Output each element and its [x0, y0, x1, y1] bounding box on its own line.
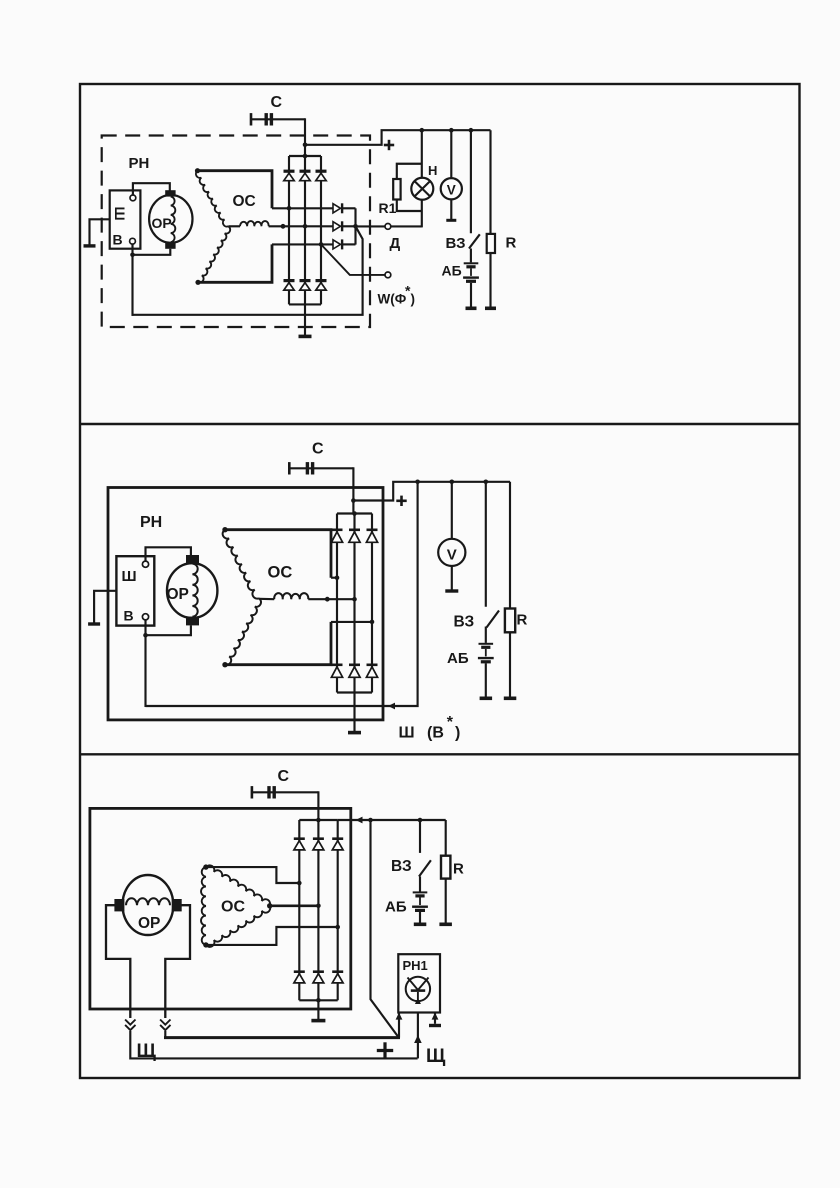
wire capacitor to main vertical: [251, 118, 305, 120]
lamp H circle: [411, 178, 433, 200]
wire switch3 upper: [419, 820, 421, 853]
ground wire regulator 2: [94, 591, 116, 623]
wire bridge3 minus to ground: [317, 1000, 319, 1019]
ground symbol left: [84, 244, 96, 247]
stator delta bottom node: [203, 942, 208, 947]
regulator PH1 box: [398, 954, 440, 1012]
wire PH1 left pin: [396, 1013, 403, 1020]
bridge top diode VD2: [300, 170, 311, 173]
bridge column 2: [304, 156, 306, 304]
wire battery to ground: [470, 283, 472, 307]
node switch branch: [469, 128, 474, 133]
svg-text:РН: РН: [129, 155, 150, 172]
stator middle coil horizontal: [240, 221, 269, 226]
bridge 2 column 1: [336, 514, 338, 693]
bridge top diode VD3: [316, 170, 327, 173]
arrow terminal Shch: [414, 1035, 422, 1043]
ground symbol bridge 2: [348, 731, 361, 735]
wire battery3 to ground: [419, 912, 421, 923]
wire excitation diode bus: [354, 208, 356, 244]
wire switch VZ upper: [470, 130, 472, 233]
bridge top bar: [289, 155, 321, 157]
ground symbol battery: [466, 307, 477, 311]
switch VZ2 blade: [487, 611, 500, 628]
wire phase2 to bridge 2: [308, 598, 354, 600]
wire + rail 3: [338, 819, 446, 821]
wire phase1 to bridge: [198, 171, 273, 209]
ground symbol resistor R 3: [439, 923, 452, 927]
bridge 2 column 3: [371, 514, 373, 693]
bridge2 bottom diode VD5: [349, 663, 360, 666]
svg-text:R: R: [517, 612, 528, 629]
rotor coil 3: [126, 898, 170, 905]
wire brush Shch to PH1: [130, 1031, 417, 1058]
wire Sh terminal to rotor brush: [133, 183, 170, 195]
svg-text:ВЗ: ВЗ: [446, 235, 466, 252]
voltmeter V2 circle: [438, 539, 465, 566]
svg-text:R: R: [506, 235, 517, 252]
svg-text:*: *: [447, 714, 454, 731]
wire brush plus to PH1: [164, 1031, 166, 1038]
voltmeter ground bar: [446, 219, 456, 222]
bridge 3 bottom bar: [299, 999, 337, 1001]
wire capacitor3 vertical: [317, 791, 319, 820]
terminal D circle: [385, 224, 391, 230]
switch VZ blade: [469, 234, 480, 248]
bridge column 3: [320, 156, 322, 304]
node phase3 3: [335, 925, 340, 930]
rotor brush contact bottom: [165, 242, 175, 249]
capacitor C3: [251, 786, 254, 798]
rotor brush contact bottom 2: [186, 617, 199, 626]
resistor R 2: [505, 609, 515, 633]
arrow Sh output: [388, 703, 395, 710]
bridge 2 top bar: [337, 512, 372, 514]
bridge 3 column 3: [337, 820, 339, 1000]
wire phase1 to bridge 3: [206, 867, 299, 883]
node phase3 on bridge column3: [319, 242, 324, 247]
node lamp branch: [420, 128, 425, 133]
battery AB: [464, 262, 479, 264]
node bridge3 top: [316, 818, 321, 823]
rotor brush contact top 2: [186, 555, 199, 564]
ground symbol resistor R 2: [504, 697, 517, 701]
terminal W circle: [385, 272, 391, 278]
svg-text:V: V: [447, 547, 457, 564]
bridge2 top diode VD1: [332, 528, 343, 531]
bridge 3 column 1: [298, 820, 300, 1000]
bridge 3 column 2: [317, 820, 319, 1000]
stator phase3 bottom node: [195, 280, 200, 285]
bridge bottom diode VD6: [316, 279, 327, 282]
svg-text:ВЗ: ВЗ: [454, 614, 475, 631]
node phase2 arrow 2: [325, 597, 330, 602]
svg-text:В: В: [113, 232, 123, 248]
node phase2 arrow: [281, 224, 286, 229]
ground symbol bridge: [299, 335, 312, 339]
wire resistor R vertical: [489, 130, 491, 234]
stator delta right node: [267, 903, 272, 908]
svg-text:ВЗ: ВЗ: [391, 858, 412, 875]
wire switch2 upper: [485, 482, 487, 607]
panel divider 1: [80, 423, 800, 425]
wire resistor R to ground: [489, 253, 491, 307]
wire phase2 to bridge: [269, 225, 333, 227]
wire phase1 to bridge 2: [225, 530, 331, 578]
regulator PH box: [110, 190, 141, 248]
svg-text:Д: Д: [390, 235, 401, 252]
node switch3 branch: [418, 818, 423, 823]
wire voltmeter bottom: [450, 199, 452, 219]
node switch2 branch: [484, 480, 489, 485]
wire voltmeter vertical: [450, 130, 452, 178]
svg-text:ОС: ОС: [268, 564, 293, 582]
rotor OP circle 3: [122, 875, 173, 935]
node V junction: [130, 253, 135, 258]
+ terminal label 2: [396, 499, 406, 502]
wire + output: [305, 130, 491, 145]
wire D output: [356, 225, 386, 227]
rotor mount right: [165, 905, 190, 1018]
rotor OP winding circle: [149, 195, 192, 243]
stator delta left winding: [201, 867, 206, 945]
svg-text:С: С: [278, 768, 290, 785]
svg-text:РН1: РН1: [403, 958, 428, 973]
resistor R: [487, 234, 495, 253]
node regulator feed: [368, 818, 373, 823]
node phase2 3: [316, 904, 321, 909]
node bridge1 top: [303, 154, 308, 159]
terminal V circle: [130, 238, 136, 244]
bridge bottom diode VD4: [284, 279, 295, 282]
alternator housing box 3: [90, 808, 351, 1009]
svg-text:ОР: ОР: [152, 215, 172, 231]
wire switch to battery: [470, 249, 472, 263]
wire phase3 to bridge 2: [225, 622, 331, 665]
wire resistor R3 to ground: [445, 879, 447, 924]
wire main vertical from capacitor to bridge: [304, 118, 306, 156]
bridge2 top diode VD3: [367, 528, 378, 531]
stator phase3 node 2: [222, 662, 227, 667]
svg-text:ОС: ОС: [233, 193, 256, 210]
rotor brush block left: [114, 899, 124, 911]
battery AB 3: [413, 891, 428, 893]
svg-text:АБ: АБ: [442, 263, 462, 279]
bridge3 top diode VD2: [313, 837, 324, 840]
rotor mount left: [106, 905, 130, 1018]
wire V to bottom 2: [144, 635, 146, 707]
wire + output 2: [353, 482, 510, 501]
wire Sh to rotor 2: [146, 547, 191, 561]
bridge3 top diode VD1: [294, 837, 305, 840]
wire switch3 to battery: [419, 877, 421, 892]
svg-text:Щ: Щ: [137, 1041, 157, 1062]
node phase1 2: [335, 575, 340, 580]
ground symbol battery 2: [480, 697, 493, 701]
wire V terminal to rotor bottom 2: [146, 620, 191, 635]
stator delta bottom winding: [206, 906, 270, 947]
brush left arrows: [125, 1020, 135, 1025]
wire V terminal to rotor bottom: [133, 244, 171, 255]
alternator housing box 2: [108, 488, 383, 720]
stator upper arm 2: [223, 530, 259, 599]
bridge3 bottom diode VD5: [313, 970, 324, 973]
ground symbol resistor R: [485, 307, 496, 311]
node phase1 on bridge column1: [287, 206, 292, 211]
stator upper coil arm: [196, 171, 228, 227]
stator phase1 node 2: [222, 527, 227, 532]
node phase2 2: [352, 597, 357, 602]
svg-text:РН: РН: [140, 514, 162, 531]
resistor R 3: [441, 856, 450, 879]
wire V down to bottom return: [131, 255, 133, 316]
wire PH1 right pin: [432, 1013, 439, 1020]
bridge 2 bottom bar: [337, 691, 372, 693]
capacitor C2: [288, 462, 291, 474]
wire battery2 to ground: [485, 663, 487, 697]
node excitation bus: [353, 224, 358, 229]
bridge3 bottom diode VD4: [294, 970, 305, 973]
node phase3 2: [370, 620, 375, 625]
wire resistor R2 to ground: [509, 632, 511, 697]
voltmeter2 ground bar: [445, 589, 458, 592]
bridge2 bottom diode VD4: [332, 663, 343, 666]
resistor R1 bypass top wire: [397, 164, 422, 180]
page frame outer border: [80, 84, 800, 1078]
svg-text:ОР: ОР: [138, 915, 160, 932]
transistor circle: [406, 977, 430, 1001]
bridge bottom diode VD5: [300, 279, 311, 282]
stator middle coil 2: [274, 593, 308, 599]
svg-text:): ): [411, 292, 416, 307]
transistor internals: [408, 978, 419, 991]
capacitor C: [250, 113, 253, 125]
svg-text:АБ: АБ: [447, 650, 469, 667]
stator lower arm 2: [225, 598, 261, 665]
wire lamp branch vertical: [421, 130, 423, 178]
wire excitation diode stubs: [342, 207, 355, 209]
bridge column 1: [288, 156, 290, 304]
rotor coil inside circle: [171, 197, 176, 243]
terminal Sh circle: [130, 195, 136, 201]
node bridge3 bottom: [316, 998, 321, 1003]
bridge2 bottom diode VD6: [367, 663, 378, 666]
wire capacitor2 horizontal: [289, 467, 353, 469]
svg-text:С: С: [271, 94, 283, 111]
node + output junction: [303, 143, 308, 148]
node bridge2 top: [352, 511, 357, 516]
stator delta top winding: [206, 865, 270, 906]
svg-text:Ш: Ш: [122, 568, 137, 585]
svg-text:С: С: [312, 441, 324, 458]
node phase2 on bridge column2: [303, 224, 308, 229]
stator phase1 top node: [195, 168, 200, 173]
regulator PH box 2: [116, 556, 154, 625]
bridge top diode VD1: [284, 170, 295, 173]
svg-text:В: В: [124, 608, 134, 624]
node V junction 2: [143, 633, 148, 638]
excitation diode VD7: [333, 204, 341, 213]
ground symbol battery 3: [414, 923, 427, 927]
bridge2 top diode VD2: [349, 528, 360, 531]
node Sh top rail: [415, 480, 420, 485]
ground symbol bridge 3: [311, 1019, 325, 1023]
bridge bottom bar: [289, 303, 321, 305]
rotor coil 2: [192, 564, 197, 617]
svg-text:V: V: [447, 183, 456, 198]
rotor OP circle 2: [167, 563, 217, 618]
bridge3 bottom diode VD6: [332, 970, 343, 973]
wire voltmeter2 vertical: [451, 482, 453, 539]
node phase1 3: [297, 881, 302, 886]
panel divider 2: [80, 753, 800, 755]
dashed alternator housing box: [102, 136, 370, 328]
svg-text:(В: (В: [427, 725, 444, 742]
wire phase2 to bridge 3: [270, 904, 319, 907]
wire resistor R2 vertical: [509, 482, 511, 609]
wire phase tap W diagonal: [321, 244, 385, 275]
stator delta top node: [203, 864, 208, 869]
svg-text:ОС: ОС: [221, 899, 245, 916]
wire phase3 to bridge 3: [206, 927, 338, 945]
wire phase3 to bridge: [198, 244, 272, 282]
battery AB 2: [479, 643, 494, 645]
rotor brush contact top: [165, 190, 175, 196]
terminal V circle 2: [142, 614, 148, 620]
wire Sh(B*) output: [146, 482, 418, 706]
wire capacitor2 vertical to bridge: [352, 467, 354, 513]
resistor R1: [393, 179, 400, 200]
svg-text:Н: Н: [428, 163, 437, 178]
node voltmeter branch: [449, 128, 454, 133]
rotor brush block right: [172, 899, 182, 911]
brush right arrows: [160, 1020, 170, 1025]
lamp H cross: [415, 181, 430, 196]
wire regulator feed vertical: [371, 820, 399, 1038]
svg-text:): ): [455, 725, 460, 742]
bridge 2 column 2: [353, 514, 355, 693]
terminal Sh circle 2: [142, 561, 148, 567]
voltmeter V circle: [441, 178, 462, 199]
svg-text:Ш: Ш: [399, 725, 415, 742]
stator lower coil arm: [198, 226, 230, 282]
plus terminal label 3: [377, 1049, 393, 1052]
svg-text:Щ: Щ: [426, 1046, 446, 1067]
+ terminal label: [384, 144, 394, 147]
ground symbol PH1: [429, 1024, 441, 1027]
excitation diode VD9: [333, 240, 341, 249]
wire capacitor3 horizontal: [252, 791, 319, 793]
wire switch2 to battery: [485, 627, 487, 643]
excitation diode VD8: [333, 222, 341, 231]
resistor R1 bypass bottom wire: [397, 200, 422, 212]
wire bridge minus to ground: [304, 304, 306, 335]
svg-text:R1: R1: [379, 200, 397, 216]
bridge3 top diode VD3: [332, 837, 343, 840]
svg-text:ОР: ОР: [167, 586, 189, 603]
wire voltmeter2 bottom: [451, 566, 453, 590]
node + output 2: [351, 498, 356, 503]
svg-text:АБ: АБ: [385, 899, 407, 916]
bridge 3 top bar: [299, 819, 337, 821]
svg-text:W(Ф: W(Ф: [378, 292, 407, 307]
wire bridge2 minus to ground: [353, 693, 355, 732]
node voltmeter2 branch: [450, 480, 455, 485]
svg-text:R: R: [453, 861, 464, 878]
ground wire of regulator: [90, 219, 110, 245]
arrow + output 3: [356, 817, 363, 824]
wire PH1 middle pin: [417, 1013, 419, 1059]
wire lamp bottom to D: [421, 200, 423, 228]
wire rotor return bottom: [132, 227, 363, 315]
switch VZ3 blade: [419, 860, 431, 876]
ground symbol 2: [88, 622, 100, 625]
svg-text:Ш: Ш: [112, 207, 128, 221]
wire resistor R3 vertical: [445, 820, 447, 856]
